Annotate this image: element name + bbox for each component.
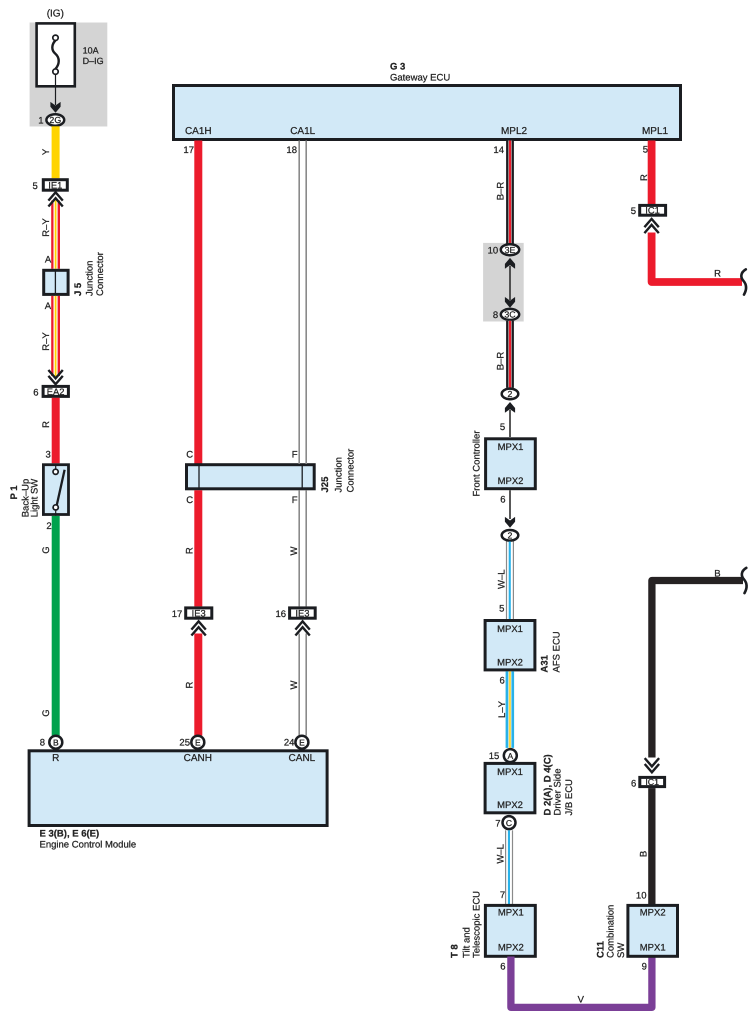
chevron below IE1 (48, 192, 62, 206)
svg-text:7: 7 (495, 818, 500, 829)
wire CANL white: IE3 to ECM (299, 634, 306, 736)
svg-text:Junction: Junction (334, 457, 345, 492)
svg-text:5: 5 (499, 604, 504, 615)
svg-text:A: A (45, 255, 52, 266)
svg-text:W: W (289, 680, 300, 689)
svg-text:10A: 10A (83, 46, 99, 56)
junction connector J25 (187, 465, 315, 489)
wire B-R: 3C to node 2 (506, 321, 514, 388)
svg-text:MPX1: MPX1 (497, 624, 523, 635)
chevron above EA2 (48, 370, 62, 384)
svg-text:E: E (299, 737, 305, 747)
switch P1 Back-Up Light SW (43, 465, 68, 515)
svg-text:R: R (52, 753, 59, 764)
Gateway ECU G3 box (174, 86, 681, 140)
svg-text:6: 6 (631, 778, 636, 789)
svg-text:18: 18 (286, 145, 297, 156)
arrow into 2G (50, 102, 60, 113)
svg-text:MPX2: MPX2 (497, 657, 523, 668)
svg-text:16: 16 (276, 609, 287, 620)
svg-text:8: 8 (40, 738, 45, 749)
arrow up below node 2 (505, 402, 515, 413)
svg-text:MPX2: MPX2 (497, 800, 523, 811)
AFS ECU box (485, 621, 535, 670)
connector oval 3E (501, 244, 519, 255)
svg-text:R: R (714, 269, 721, 280)
svg-text:3: 3 (46, 449, 51, 460)
Tilt and Telescopic ECU box (485, 905, 535, 956)
svg-text:10: 10 (636, 891, 647, 902)
svg-text:C: C (186, 495, 193, 506)
svg-text:SW: SW (616, 943, 627, 958)
wire G (green) (52, 516, 60, 736)
chevron below IE3 (191, 621, 205, 635)
svg-text:F: F (292, 495, 298, 506)
svg-text:MPL1: MPL1 (642, 126, 669, 137)
svg-text:Y: Y (41, 148, 52, 155)
svg-text:6: 6 (500, 675, 505, 686)
wire L-Y: AFS ECU to J/B ECU (506, 671, 514, 748)
svg-text:Connector: Connector (346, 449, 357, 493)
wire B (black) Combination SW to IC1 (648, 788, 655, 904)
svg-text:F: F (292, 450, 298, 461)
Front Controller box (486, 439, 536, 489)
svg-text:Engine Control Module: Engine Control Module (40, 840, 137, 851)
wire B-R: gateway MPL2 to 3E (506, 141, 514, 244)
wire CANL white: gateway to J25 (299, 141, 306, 465)
svg-text:D–IG: D–IG (83, 56, 104, 66)
wire fuse to 2G (55, 74, 57, 105)
fuse block shading (30, 23, 108, 127)
svg-text:MPX2: MPX2 (498, 942, 524, 953)
svg-text:B: B (53, 737, 59, 747)
svg-text:Connector: Connector (95, 252, 106, 296)
svg-text:MPX1: MPX1 (498, 908, 524, 919)
svg-text:Telescopic ECU: Telescopic ECU (471, 891, 482, 958)
svg-text:CANL: CANL (289, 753, 316, 764)
svg-text:P 1: P 1 (9, 485, 20, 500)
svg-text:3E: 3E (505, 245, 516, 255)
wire Front Controller to node 2 (509, 490, 511, 519)
svg-text:W–L: W–L (497, 569, 508, 589)
wire 3E to 3C (509, 266, 511, 300)
svg-text:MPX1: MPX1 (640, 942, 666, 953)
svg-text:5: 5 (643, 145, 648, 156)
svg-text:G: G (41, 709, 52, 716)
svg-text:C: C (186, 450, 193, 461)
connector oval 3C (501, 309, 519, 320)
svg-text:C: C (506, 818, 512, 828)
svg-text:15: 15 (489, 751, 500, 762)
wire node 2 to Front Controller (509, 410, 511, 437)
wire V (violet) Tilt ECU to Combination SW (511, 957, 652, 1008)
connector IE3 (17) (186, 608, 212, 618)
svg-text:2: 2 (508, 389, 513, 399)
connector oval 2G (46, 114, 64, 125)
svg-text:(IG): (IG) (47, 9, 64, 20)
gray shading behind 3E/3C connectors (483, 243, 524, 322)
svg-text:MPL2: MPL2 (501, 126, 528, 137)
fuse 10A D-IG box (37, 23, 75, 86)
svg-text:2: 2 (508, 530, 513, 540)
svg-text:AFS ECU: AFS ECU (551, 631, 562, 672)
svg-text:14: 14 (493, 145, 504, 156)
svg-text:W–L: W–L (496, 844, 507, 864)
Engine Control Module box (29, 751, 327, 826)
svg-text:J 5: J 5 (73, 282, 84, 296)
svg-text:IE3: IE3 (295, 608, 309, 619)
arrow down above node 2 (505, 517, 515, 528)
wire CANH red: J25 to IE3 (194, 490, 202, 606)
svg-text:10: 10 (488, 245, 499, 256)
wire R-Y upper segment (51, 201, 60, 269)
svg-text:IE1: IE1 (48, 179, 62, 190)
arrow up below 3E (505, 258, 515, 269)
Driver Side J/B ECU box (485, 763, 535, 812)
svg-text:R–Y: R–Y (41, 218, 52, 237)
svg-text:R: R (639, 174, 650, 181)
svg-text:L–Y: L–Y (497, 700, 508, 718)
chevron above IC1 (645, 758, 659, 772)
svg-text:E: E (195, 737, 201, 747)
chevron below IC1 (644, 219, 658, 233)
svg-text:5: 5 (500, 422, 505, 433)
connector IE1 (43, 180, 67, 191)
arrow down above 3C (505, 297, 515, 308)
svg-text:24: 24 (284, 738, 295, 749)
wire CANL white: J25 to IE3 (299, 490, 306, 606)
svg-text:G 3: G 3 (390, 62, 405, 73)
svg-text:CA1H: CA1H (185, 126, 212, 137)
svg-text:Front Controller: Front Controller (471, 431, 482, 497)
svg-text:5: 5 (33, 181, 38, 192)
node oval 2 (502, 530, 519, 541)
svg-text:MPX1: MPX1 (497, 767, 523, 778)
wire Y (yellow) (52, 126, 60, 178)
connector EA2 (43, 386, 68, 396)
svg-text:Junction: Junction (85, 261, 96, 296)
svg-text:3C: 3C (504, 310, 516, 320)
Combination SW box (628, 905, 678, 956)
chevron below IE3 (295, 621, 309, 635)
svg-text:A31: A31 (540, 654, 551, 672)
svg-text:Driver Side: Driver Side (552, 769, 563, 816)
svg-text:IC1: IC1 (645, 205, 660, 216)
svg-text:2: 2 (46, 521, 51, 532)
svg-text:R: R (185, 547, 196, 554)
svg-text:MPX2: MPX2 (640, 908, 666, 919)
continuation curl (black wire) (742, 568, 747, 593)
svg-text:9: 9 (642, 961, 647, 972)
svg-text:EA2: EA2 (47, 386, 65, 397)
svg-text:T 8: T 8 (450, 944, 461, 958)
svg-text:5: 5 (631, 206, 636, 217)
node oval 2 (502, 389, 519, 400)
svg-text:25: 25 (179, 738, 190, 749)
wire CANH red: gateway to J25 (194, 141, 202, 465)
svg-text:J25: J25 (320, 476, 331, 493)
svg-text:E 3(B), E 6(E): E 3(B), E 6(E) (40, 829, 100, 840)
svg-text:8: 8 (493, 310, 498, 321)
svg-text:V: V (578, 995, 585, 1006)
svg-text:CA1L: CA1L (290, 126, 315, 137)
wire R (red) IC1 down and right to continuation (652, 233, 742, 283)
svg-text:B: B (714, 568, 720, 579)
svg-text:J/B ECU: J/B ECU (564, 779, 575, 816)
wire W-L: circle C to Tilt ECU (506, 830, 513, 904)
junction connector J5 (44, 270, 68, 294)
svg-text:R: R (185, 681, 196, 688)
svg-text:A: A (507, 751, 513, 761)
svg-text:B–R: B–R (496, 352, 507, 371)
connector IE3 (16) (290, 608, 316, 618)
wire B (black) IC1 up and right to continuation (652, 581, 743, 758)
wire R-Y lower segment (51, 296, 60, 376)
svg-text:IC1: IC1 (645, 777, 659, 787)
svg-text:Light SW: Light SW (30, 479, 41, 518)
wire R to switch (52, 398, 60, 464)
wire W-L: node 2 to AFS ECU (507, 542, 514, 620)
svg-text:6: 6 (500, 494, 505, 505)
svg-text:2G: 2G (49, 115, 61, 125)
svg-text:R–Y: R–Y (41, 332, 52, 351)
svg-text:CANH: CANH (184, 753, 212, 764)
svg-text:Gateway ECU: Gateway ECU (390, 73, 450, 84)
svg-text:A: A (45, 301, 52, 312)
svg-text:17: 17 (172, 609, 183, 620)
svg-text:6: 6 (33, 387, 38, 398)
svg-text:IE3: IE3 (192, 608, 206, 619)
wire R (red) gateway MPL1 to IC1 (648, 141, 656, 205)
svg-text:G: G (41, 546, 52, 553)
svg-text:7: 7 (500, 890, 505, 901)
svg-text:B–R: B–R (496, 182, 507, 201)
svg-text:6: 6 (500, 961, 505, 972)
svg-text:W: W (289, 546, 300, 555)
svg-text:R: R (41, 421, 52, 428)
fuse element (52, 40, 58, 68)
continuation curl (red wire) (741, 269, 746, 294)
svg-text:MPX1: MPX1 (498, 442, 524, 453)
wire CANH red: IE3 to ECM (194, 634, 202, 736)
svg-text:B: B (638, 851, 649, 857)
svg-text:MPX2: MPX2 (498, 476, 524, 487)
svg-text:1: 1 (38, 115, 43, 126)
svg-text:17: 17 (183, 145, 194, 156)
